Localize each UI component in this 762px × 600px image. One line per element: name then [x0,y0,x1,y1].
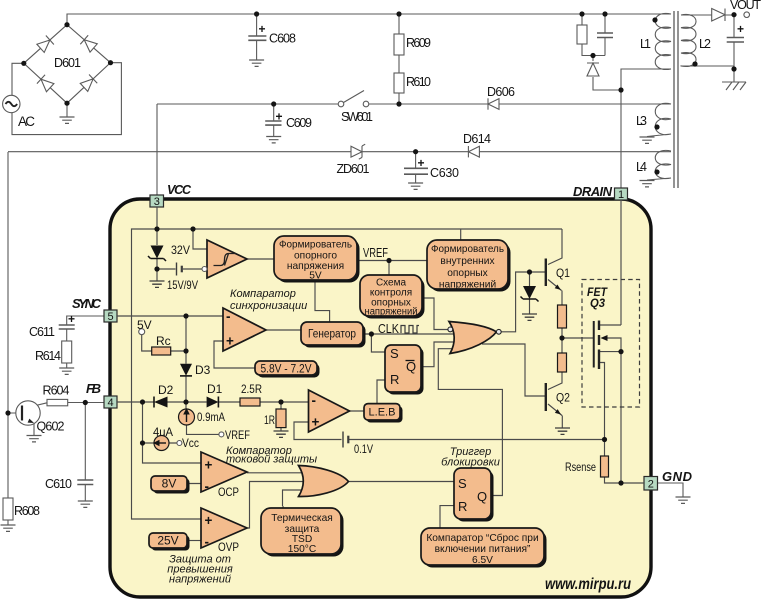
svg-text:Q: Q [406,359,416,374]
svg-text:Формирователь: Формирователь [431,244,504,255]
svg-text:Компаратор: Компаратор [230,288,296,300]
svg-text:R: R [458,499,467,514]
svg-text:C609: C609 [286,116,312,130]
svg-text:Q602: Q602 [37,420,65,434]
svg-text:VREF: VREF [363,246,388,260]
svg-text:опорного: опорного [294,250,337,261]
svg-text:блокировки: блокировки [441,457,500,469]
svg-text:C611: C611 [29,325,55,339]
svg-text:2: 2 [648,479,654,491]
svg-text:-: - [205,479,210,494]
svg-text:напряжений: напряжений [365,307,418,318]
svg-text:-: - [205,535,210,550]
svg-text:CLK: CLK [378,321,399,336]
svg-text:D601: D601 [54,56,81,70]
svg-text:AC: AC [18,114,35,129]
svg-text:2.5R: 2.5R [241,382,262,396]
svg-text:R: R [390,372,399,387]
svg-text:32V: 32V [171,243,190,257]
svg-text:OCP: OCP [218,485,239,499]
svg-text:4: 4 [107,397,113,409]
svg-text:Rsense: Rsense [565,460,596,474]
svg-text:опорных: опорных [447,268,488,279]
svg-text:Q2: Q2 [556,391,570,405]
svg-text:+: + [418,156,425,170]
svg-text:D614: D614 [463,132,491,146]
svg-text:+: + [312,415,320,430]
svg-text:OVP: OVP [218,540,239,554]
svg-text:0.1V: 0.1V [354,442,373,456]
svg-text:15V/9V: 15V/9V [167,278,198,292]
svg-text:R609: R609 [406,36,431,50]
svg-text:R608: R608 [14,504,40,518]
svg-text:1: 1 [618,189,624,201]
svg-text:4uA: 4uA [153,425,173,439]
svg-text:C630: C630 [430,166,459,180]
svg-text:0.9mA: 0.9mA [197,410,225,424]
svg-text:+: + [737,22,744,36]
svg-text:FB: FB [86,381,101,396]
svg-text:токовой защиты: токовой защиты [226,454,317,466]
svg-text:5V: 5V [309,270,322,281]
svg-text:Компаратор “Сброс при: Компаратор “Сброс при [426,532,538,544]
svg-text:5.8V - 7.2V: 5.8V - 7.2V [261,362,312,376]
svg-text:-: - [312,393,317,408]
svg-text:напряжений: напряжений [439,280,496,291]
svg-text:Q1: Q1 [556,266,570,280]
svg-text:DRAIN: DRAIN [573,184,613,199]
svg-text:25V: 25V [157,534,178,548]
svg-text:+: + [259,22,266,36]
svg-text:SYNC: SYNC [72,296,102,311]
svg-text:150°C: 150°C [288,544,316,555]
svg-text:+: + [205,513,213,528]
svg-text:синхронизации: синхронизации [230,300,307,312]
svg-text:L4: L4 [636,160,647,174]
svg-text:C610: C610 [45,477,72,491]
svg-text:+: + [205,458,213,473]
svg-text:5V: 5V [137,318,152,332]
svg-text:5: 5 [107,311,113,323]
svg-text:www.mirpu.ru: www.mirpu.ru [545,576,631,593]
svg-text:8V: 8V [162,477,177,491]
svg-text:VOUT: VOUT [730,0,761,12]
svg-text:R610: R610 [406,75,431,89]
svg-text:Vcc: Vcc [182,436,199,450]
svg-text:L1: L1 [640,37,651,51]
svg-text:включении питания”: включении питания” [435,544,531,555]
svg-text:GND: GND [662,469,693,484]
svg-text:L2: L2 [699,37,711,51]
svg-text:Q3: Q3 [590,298,606,310]
svg-text:D606: D606 [487,85,515,99]
svg-text:S: S [390,346,399,361]
svg-text:VCC: VCC [167,183,192,197]
svg-text:S: S [458,476,467,491]
svg-text:VREF: VREF [225,428,250,442]
svg-text:+: + [226,334,234,349]
svg-text:+: + [68,312,75,326]
svg-text:1R: 1R [264,413,275,427]
svg-text:D1: D1 [207,382,223,396]
svg-text:+: + [276,110,283,124]
svg-text:-: - [226,309,231,324]
svg-text:Формирователь: Формирователь [279,239,352,250]
svg-text:D2: D2 [158,383,174,397]
svg-text:L.E.B: L.E.B [369,407,396,419]
svg-text:6.5V: 6.5V [472,555,493,566]
svg-text:SW601: SW601 [341,110,373,124]
svg-text:R614: R614 [35,349,61,363]
svg-text:R604: R604 [43,384,70,398]
svg-text:D3: D3 [195,363,211,377]
svg-text:3: 3 [154,196,160,208]
svg-text:C608: C608 [269,32,296,46]
svg-text:Q: Q [477,489,487,504]
svg-text:Генератор: Генератор [308,329,356,341]
svg-text:Rc: Rc [156,334,171,348]
svg-text:внутренних: внутренних [440,256,494,267]
svg-text:напряжений: напряжений [169,574,231,586]
svg-text:Термическая: Термическая [271,513,333,524]
svg-text:ZD601: ZD601 [337,162,370,176]
svg-text:L3: L3 [636,114,647,128]
